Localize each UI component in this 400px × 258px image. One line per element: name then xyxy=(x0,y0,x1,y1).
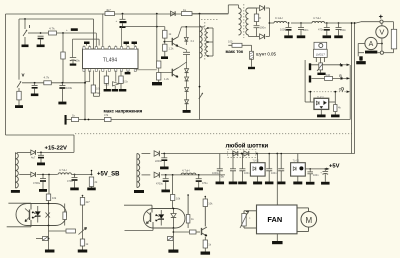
svg-text:FAN: FAN xyxy=(267,215,282,224)
svg-text:4.7uH: 4.7uH xyxy=(313,16,320,20)
svg-text:100n: 100n xyxy=(271,172,277,175)
svg-text:1.2k: 1.2k xyxy=(164,77,170,81)
svg-text:1k: 1k xyxy=(183,8,187,12)
svg-text:любой шоттки: любой шоттки xyxy=(226,142,269,149)
svg-text:100n: 100n xyxy=(244,172,250,175)
svg-text:+5V_SB: +5V_SB xyxy=(97,172,120,178)
svg-text:4.7uH: 4.7uH xyxy=(182,169,189,173)
svg-text:470u: 470u xyxy=(202,182,208,185)
svg-text:47k: 47k xyxy=(104,113,109,117)
svg-text:макс напряжения: макс напряжения xyxy=(104,108,143,113)
svg-text:100n: 100n xyxy=(313,174,319,177)
svg-text:240: 240 xyxy=(326,73,331,77)
svg-text:5.1k: 5.1k xyxy=(105,84,110,87)
svg-text:+: + xyxy=(379,12,384,21)
svg-text:10k: 10k xyxy=(52,196,57,200)
svg-text:A: A xyxy=(369,41,374,48)
svg-text:100n: 100n xyxy=(260,26,267,30)
svg-text:1000u: 1000u xyxy=(212,172,220,175)
svg-text:4k7: 4k7 xyxy=(106,8,111,12)
svg-text:470u: 470u xyxy=(67,179,73,183)
svg-text:2200u: 2200u xyxy=(155,160,163,163)
svg-text:4.7uH: 4.7uH xyxy=(59,168,66,172)
svg-text:10k: 10k xyxy=(176,197,181,201)
svg-text:TL431: TL431 xyxy=(293,160,300,163)
svg-text:4.7k: 4.7k xyxy=(44,76,50,80)
svg-text:4.7k: 4.7k xyxy=(49,27,55,31)
svg-text:10u: 10u xyxy=(76,59,81,63)
svg-text:LM317: LM317 xyxy=(316,53,326,57)
svg-text:макс ток: макс ток xyxy=(226,49,244,54)
svg-text:V: V xyxy=(379,28,384,37)
svg-text:I: I xyxy=(29,24,30,29)
svg-text:0.1uH: 0.1uH xyxy=(275,16,282,20)
svg-text:R: R xyxy=(259,16,261,20)
svg-text:470u: 470u xyxy=(318,28,324,32)
svg-text:10k: 10k xyxy=(96,87,101,91)
svg-text:10k: 10k xyxy=(208,202,213,206)
svg-text:+5V: +5V xyxy=(329,163,340,169)
svg-text:100k: 100k xyxy=(66,86,73,90)
svg-text:шунт 0.05: шунт 0.05 xyxy=(256,51,276,56)
svg-text:4u7: 4u7 xyxy=(31,156,36,160)
svg-text:100n: 100n xyxy=(303,28,309,32)
svg-text:1.2k: 1.2k xyxy=(169,47,175,51)
svg-text:+: + xyxy=(66,28,68,32)
svg-text:5.1k: 5.1k xyxy=(123,81,128,84)
svg-text:TL431: TL431 xyxy=(252,160,259,163)
svg-text:4700u: 4700u xyxy=(33,181,41,185)
svg-text:100n: 100n xyxy=(340,28,346,32)
svg-text:+15-22V: +15-22V xyxy=(45,146,68,152)
svg-text:4k7: 4k7 xyxy=(86,200,91,204)
svg-text:TL494: TL494 xyxy=(103,58,117,64)
svg-text:+: + xyxy=(116,19,118,23)
svg-text:TL431: TL431 xyxy=(317,96,324,99)
svg-text:100: 100 xyxy=(228,40,233,44)
svg-text:5k1: 5k1 xyxy=(96,91,101,95)
svg-text:1000u: 1000u xyxy=(280,28,288,32)
svg-text:V: V xyxy=(22,73,25,78)
svg-text:4700u: 4700u xyxy=(156,183,164,186)
svg-text:M: M xyxy=(305,216,312,225)
